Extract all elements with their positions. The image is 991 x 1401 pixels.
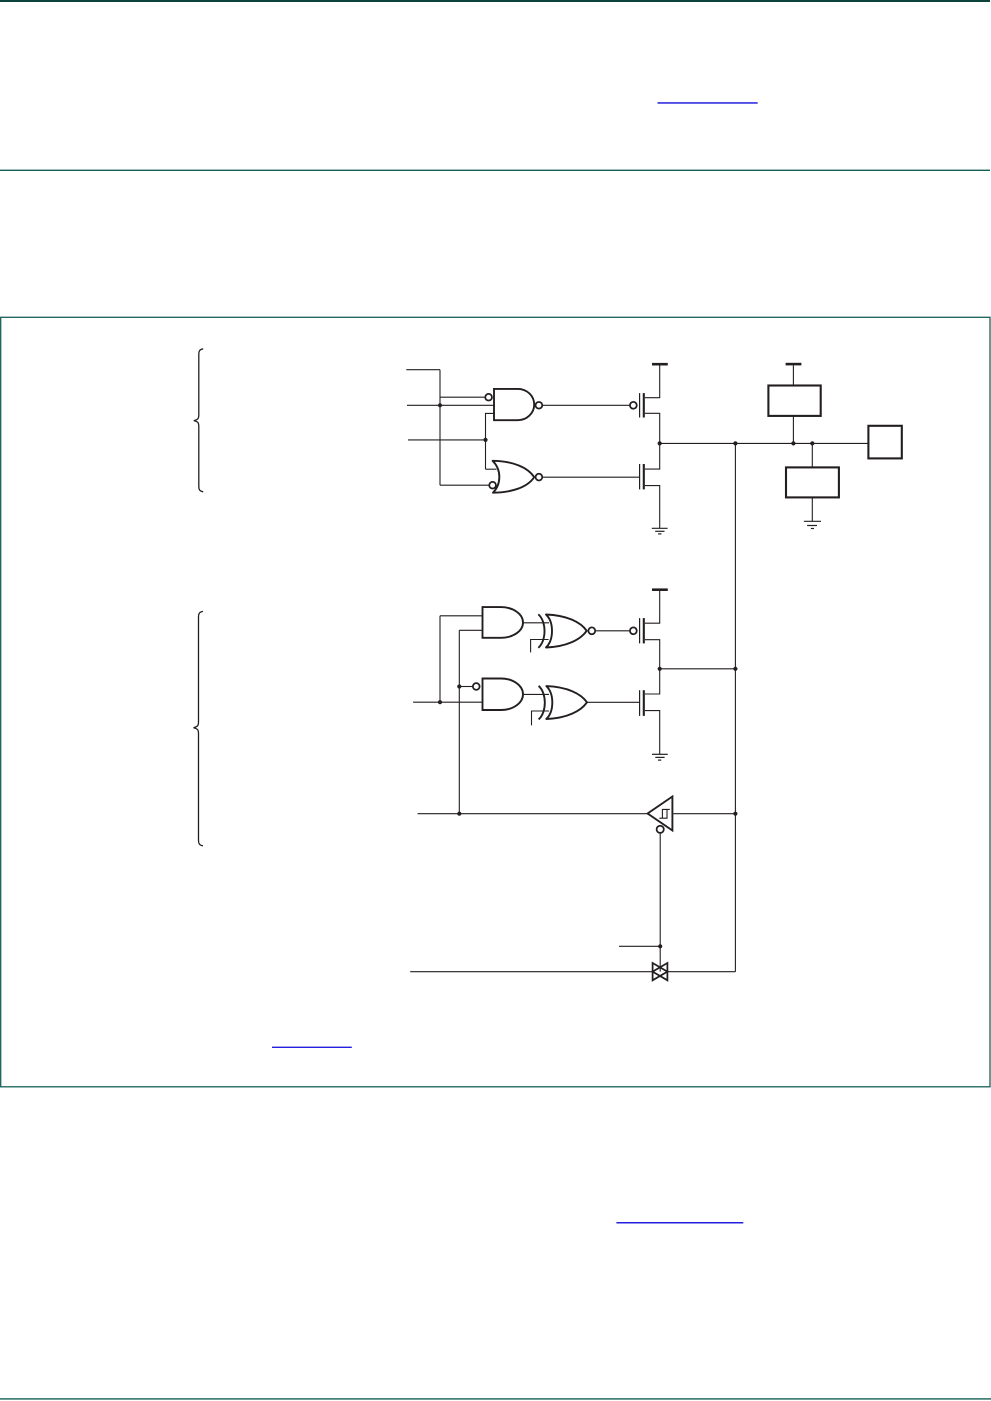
U1 output inversion bubble (536, 402, 543, 409)
nor-gate U2 (493, 461, 535, 493)
transistor Q1 (PMOS driver) (630, 366, 660, 444)
wire U4 output to XOR U6 (523, 693, 549, 695)
wire U5 lower input stub (531, 640, 549, 653)
wire NOR U2 top input (486, 468, 497, 470)
wire AND U3 top input elbow (440, 616, 483, 702)
wire input 1 stub (406, 369, 440, 371)
ground symbol at Q2 source (652, 528, 668, 534)
wire U1 output to PMOS Q1 gate (542, 404, 630, 406)
wire to NOR U2 inverted input (440, 484, 489, 486)
footer rule (0, 1398, 991, 1399)
U5 output inversion bubble (588, 627, 595, 634)
wire enable stub (619, 945, 660, 947)
junction pad node at Rpd (810, 441, 814, 445)
analog switch S1 (bowtie) (653, 963, 668, 980)
wire NAND U1 third input elbow (486, 413, 495, 469)
brace (pull-up/input signal group) (194, 611, 204, 845)
transistor Q2 (NMOS driver) (640, 443, 660, 528)
input buffer U7 (left-pointing triangle) (648, 797, 673, 831)
junction enable stub / enable vertical (658, 944, 662, 948)
U1 input inversion bubble (485, 394, 492, 401)
wire U7 enable vertical (659, 833, 661, 972)
wire vertical bus input 1/2 (439, 370, 441, 486)
transistor Q3 (PMOS pull-up) (630, 591, 660, 669)
hyperlink underline (body text) (616, 1222, 743, 1224)
hysteresis symbol inside U7 (659, 809, 670, 818)
header rule (0, 170, 990, 171)
and-gate U3 (483, 607, 524, 638)
wire pad node (drivers to pin) (660, 442, 869, 444)
ground symbol at Rpd (804, 521, 821, 528)
U4 input inversion bubble (473, 683, 480, 690)
pad (pin) box (868, 426, 901, 459)
U2 input inversion bubble (489, 482, 496, 489)
nand-gate U1 (494, 389, 534, 420)
wire input buffer right to feedback vertical (673, 813, 735, 815)
wire pull-down resistor branch (811, 443, 813, 521)
wire to NAND U1 inverted input (440, 396, 485, 398)
wire U3 output to XOR U5 (523, 622, 549, 624)
junction pad node at Rpu (791, 441, 795, 445)
wire U6 lower input stub (532, 711, 550, 725)
junction feedback vertical / Q3-Q4 node wire (733, 667, 737, 671)
wire analog I/O left (410, 971, 652, 973)
hyperlink underline (figure caption) (272, 1047, 352, 1048)
transistor Q4 (NMOS pull-down) (640, 669, 660, 754)
hyperlink underline (header) (658, 102, 758, 104)
brace (output driver signal group) (194, 349, 203, 492)
junction pad node at drivers (658, 441, 662, 445)
junction vertical bus / U4 inverted input (457, 684, 461, 688)
wire input buffer left (418, 813, 648, 815)
wire AND U3 bottom input elbow (vertical bus) (459, 630, 482, 813)
wire long feedback vertical from pad node (734, 443, 736, 971)
junction input bus / input 2 (438, 403, 442, 407)
wire pull-up resistor branch (792, 365, 794, 443)
junction Q3/Q4 node (658, 667, 662, 671)
junction U3 top elbow / U4 input wire (438, 700, 442, 704)
VDD supply bar at pull-up (786, 363, 802, 366)
U2 output inversion bubble (536, 474, 543, 481)
wire input 2 stub (407, 404, 494, 406)
figure frame (1, 317, 990, 1087)
ground symbol at Q4 source (652, 754, 668, 760)
U7 enable inversion bubble (657, 826, 664, 833)
wire analog I/O right (667, 971, 735, 973)
wire input 3 stub (408, 439, 486, 441)
junction feedback vertical / buffer output wire (733, 812, 737, 816)
wire AND U4 bottom input (413, 701, 482, 703)
wire U5 output to PMOS Q3 gate (595, 630, 630, 632)
junction input 3 / U1-U2 elbow (483, 438, 487, 442)
xor-gate U5 (538, 614, 586, 648)
xor-gate U6 (539, 686, 587, 720)
wire to AND U4 inverted input (459, 686, 473, 688)
header top bar (0, 0, 990, 2)
VDD supply bar at Q1 (652, 363, 668, 366)
resistor Rpd (pull-down box) (786, 467, 839, 497)
VDD supply bar at Q3 (652, 588, 668, 591)
wire U2 output to NMOS Q2 gate (542, 476, 639, 478)
and-gate U4 (483, 679, 524, 711)
junction pad node at feedback vertical (733, 441, 737, 445)
junction vertical bus / buffer wire (457, 812, 461, 816)
resistor Rpu (pull-up box) (768, 386, 820, 416)
wire Q3/Q4 node to feedback vertical (660, 668, 736, 670)
wire U6 output to NMOS Q4 gate (587, 701, 639, 703)
